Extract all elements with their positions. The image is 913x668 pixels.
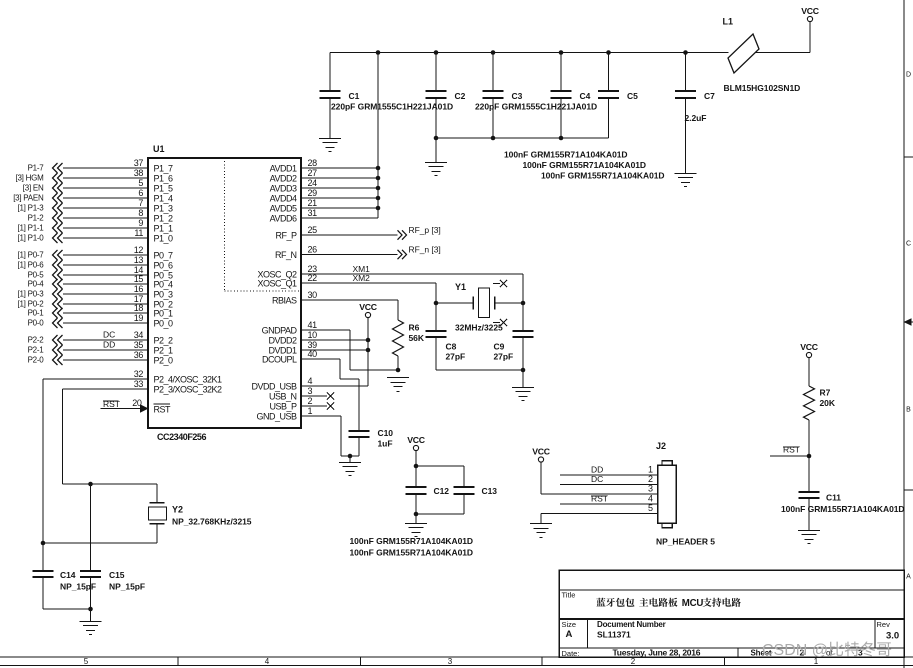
pin name P1_1 [154, 224, 174, 234]
net label RF_p [3] [409, 225, 441, 235]
net label [1] P1-3 [17, 204, 44, 213]
svg-text:P1_3: P1_3 [154, 204, 174, 214]
wire C12-C13 bottom rail [416, 513, 464, 515]
svg-text:GND_USB: GND_USB [256, 412, 297, 422]
svg-text:29: 29 [308, 188, 318, 198]
crystal Y1 [473, 288, 495, 318]
resistor R6 [393, 300, 404, 370]
wire net P0-5 to pin 14 [63, 274, 148, 276]
capacitor C1 [320, 53, 341, 139]
J2 pin number 3 [648, 484, 653, 494]
svg-text:C13: C13 [482, 486, 498, 496]
capacitor C3 [483, 53, 504, 139]
junction C14 top [41, 541, 46, 546]
J2 pin number 5 [648, 503, 653, 513]
wire net P0-4 to pin 15 [63, 283, 148, 285]
C8 reference label [446, 342, 457, 352]
Y1 reference label [455, 282, 466, 292]
svg-text:100nF GRM155R71A104KA01D: 100nF GRM155R71A104KA01D [504, 150, 628, 160]
wire net P0-1 to pin 18 [63, 312, 148, 314]
net label [1] P0-7 [17, 251, 44, 260]
off-page connector P1-2 [53, 213, 63, 223]
frame zone number 3 [448, 657, 453, 666]
C12 reference label [434, 486, 450, 496]
pin name DVDD_USB [251, 382, 297, 392]
frame zone tick D/C [904, 156, 913, 158]
C14 value NP_15pF [60, 582, 96, 592]
svg-text:32MHz/3225: 32MHz/3225 [455, 323, 503, 333]
svg-text:A: A [906, 574, 911, 581]
wire USB_N stub [301, 395, 327, 397]
svg-text:5: 5 [138, 178, 143, 188]
title block divider Rev cell [874, 619, 876, 648]
off-page connector P2-2 [53, 335, 63, 345]
wire net P1-2 to pin 8 [63, 217, 148, 219]
title block divider Size cell [587, 619, 589, 648]
svg-text:38: 38 [134, 168, 144, 178]
C5 reference label [627, 91, 638, 101]
svg-text:2.2uF: 2.2uF [685, 113, 707, 123]
pin name AVDD4 [270, 194, 297, 204]
svg-text:NP_32.768KHz/3215: NP_32.768KHz/3215 [172, 517, 252, 527]
frame bottom outer line [0, 665, 913, 667]
wire net [3] PAEN to pin 6 [63, 197, 148, 199]
pin name GND_USB [256, 412, 297, 422]
wire AVDD pin stub y=198 [301, 197, 378, 199]
title block label Rev [877, 620, 891, 629]
svg-text:AVDD6: AVDD6 [270, 214, 297, 224]
pin name P2_0 [154, 356, 174, 366]
Y1 NC pin stub bottom [493, 322, 500, 324]
pin number 36 [134, 350, 144, 360]
net label DC (J2) [591, 474, 603, 484]
wire top rail left segment [330, 52, 729, 54]
svg-text:C4: C4 [580, 91, 591, 101]
title block label Document Number [597, 620, 666, 629]
C11 value 100nF [781, 504, 905, 514]
wire net P1-7 to pin 37 [63, 167, 148, 169]
pin name P0_7 [154, 251, 174, 261]
ground (R7/C11) [798, 531, 820, 544]
pin number 17 [134, 294, 144, 304]
junction rail/C3 [491, 50, 496, 55]
svg-text:RBIAS: RBIAS [272, 296, 297, 306]
pin number 39 [308, 340, 318, 350]
C8 value 27pF [446, 352, 466, 362]
net label RST (J2, overbar) [591, 494, 608, 504]
net label [1] P0-2 [17, 300, 44, 309]
off-page connector [3] EN [53, 183, 63, 193]
off-page connector P1-7 [53, 163, 63, 173]
wire net [1] P1-0 to pin 11 [63, 237, 148, 239]
off-page connector P0-5 [53, 270, 63, 280]
off-page connector [3] HGM [53, 173, 63, 183]
svg-text:27: 27 [308, 168, 318, 178]
svg-text:100nF GRM155R71A104KA01D: 100nF GRM155R71A104KA01D [781, 504, 905, 514]
svg-text:RST: RST [783, 445, 800, 455]
svg-text:USB_N: USB_N [269, 392, 297, 402]
pin number 30 [308, 290, 318, 300]
junction AVDD bus y=178 [376, 176, 381, 181]
frame bottom inner line [0, 656, 913, 658]
junction rail/C2 [434, 50, 439, 55]
pin name DVDD2 [268, 336, 297, 346]
net label DC [103, 329, 115, 339]
svg-text:RST: RST [591, 494, 608, 504]
pin number 12 [134, 245, 144, 255]
VCC symbol (R7) [800, 342, 818, 357]
capacitor C10 [349, 431, 370, 456]
title block label Sheet [751, 649, 772, 658]
title block divider row1 [559, 589, 904, 591]
wire RF_N [301, 254, 398, 256]
svg-text:C11: C11 [826, 493, 841, 503]
sheet size A [566, 629, 573, 640]
svg-text:USB_P: USB_P [269, 402, 297, 412]
pin name XOSC_Q2 [257, 270, 297, 280]
wire P2_3/XOSC_32K2 pin 33 [62, 388, 148, 390]
title block label Size [562, 620, 577, 629]
svg-text:[3] HGM: [3] HGM [15, 174, 44, 183]
frame bottom zone divider x=360.5 [360, 657, 362, 666]
pin name AVDD3 [270, 184, 297, 194]
svg-text:18: 18 [134, 303, 144, 313]
svg-text:34: 34 [134, 330, 144, 340]
svg-text:P0_3: P0_3 [154, 290, 174, 300]
capacitor C15 [80, 484, 101, 609]
svg-text:35: 35 [134, 340, 144, 350]
pin number 34 [134, 330, 144, 340]
VCC symbol (top right) [801, 6, 819, 21]
pin name P0_6 [154, 261, 174, 271]
net label [1] P0-3 [17, 290, 44, 299]
capacitor C2 [426, 53, 447, 139]
wire DVDD1 [301, 349, 368, 351]
svg-text:24: 24 [308, 178, 318, 188]
svg-text:P2-0: P2-0 [28, 356, 45, 365]
svg-text:DD: DD [591, 465, 603, 475]
svg-text:P1_2: P1_2 [154, 214, 174, 224]
C10 reference label [378, 428, 394, 438]
C11 reference label [826, 493, 841, 503]
net label DD (J2) [591, 465, 603, 475]
L1 value BLM15HG102SN1D [724, 83, 801, 93]
pin name P0_3 [154, 290, 174, 300]
svg-text:P1_0: P1_0 [154, 234, 174, 244]
pin name RF_P [275, 231, 297, 241]
svg-text:4: 4 [265, 657, 270, 666]
off-page connector P0-1 [53, 308, 63, 318]
pin number 5 [138, 178, 143, 188]
off-sheet arrow marker [904, 318, 912, 325]
wire XM2 vertical [435, 283, 437, 303]
wire GND_USB [301, 416, 359, 456]
pin name XOSC_Q1 [257, 279, 297, 289]
svg-text:L1: L1 [723, 17, 733, 27]
svg-text:8: 8 [138, 208, 143, 218]
C2 value 100nF line1 [504, 150, 628, 160]
title block outer border [559, 570, 904, 657]
svg-text:R7: R7 [820, 388, 831, 398]
C13 reference label [482, 486, 498, 496]
VCC symbol (DVDD) [359, 302, 377, 317]
svg-text:Document Number: Document Number [597, 620, 666, 629]
svg-text:C2: C2 [455, 91, 466, 101]
svg-text:DVDD_USB: DVDD_USB [251, 382, 297, 392]
svg-text:30: 30 [308, 290, 318, 300]
wire AVDD pin stub y=208 [301, 207, 378, 209]
pin name DVDD1 [268, 346, 297, 356]
svg-text:SL11371: SL11371 [597, 630, 631, 640]
svg-text:P0_1: P0_1 [154, 309, 174, 319]
svg-text:5: 5 [84, 657, 89, 666]
svg-text:CC2340F256: CC2340F256 [157, 432, 206, 442]
frame zone letter A [906, 574, 911, 581]
svg-text:Y2: Y2 [172, 505, 183, 515]
svg-text:25: 25 [308, 225, 318, 235]
off-page connector RF_p [398, 230, 407, 239]
off-page connector P2-0 [53, 355, 63, 365]
watermark CSDN [762, 642, 891, 659]
pin number 33 [134, 379, 144, 389]
R7 reference label [820, 388, 831, 398]
svg-text:RF_p [3]: RF_p [3] [409, 225, 441, 235]
off-page connector [1] P0-3 [53, 289, 63, 299]
pin name AVDD6 [270, 214, 297, 224]
R6 reference label [409, 323, 420, 333]
Y2 value NP_32.768KHz/3215 [172, 517, 252, 527]
net label [3] EN [23, 184, 44, 193]
capacitor C9 [513, 303, 534, 370]
svg-text:31: 31 [308, 208, 318, 218]
svg-text:4: 4 [308, 376, 313, 386]
pin number 32 [134, 369, 144, 379]
svg-text:37: 37 [134, 158, 144, 168]
wire net [1] P0-2 to pin 17 [63, 303, 148, 305]
svg-text:B: B [906, 407, 911, 414]
J2 part NP_HEADER 5 [656, 537, 715, 547]
svg-text:C1: C1 [349, 91, 360, 101]
sheet total 3 [858, 648, 863, 658]
svg-text:100nF GRM155R71A104KA01D: 100nF GRM155R71A104KA01D [350, 536, 474, 546]
net label P2-0 [28, 356, 45, 365]
pin name P2_3/XOSC_32K2 [154, 385, 223, 395]
pin name AVDD2 [270, 174, 297, 184]
wire Y1 ground stem [522, 370, 524, 387]
wire GNDPAD rail [350, 369, 398, 371]
svg-text:Size: Size [562, 620, 577, 629]
C4 reference label [580, 91, 591, 101]
Y1 NC pin stub top [493, 283, 500, 285]
net label [1] P0-6 [17, 261, 44, 270]
sheet frame right border [903, 0, 905, 668]
C10 value 1uF [378, 439, 393, 449]
wire DVDD_USB [301, 385, 368, 387]
pin number 11 [134, 228, 143, 238]
svg-text:VCC: VCC [801, 6, 819, 16]
svg-text:[3] PAEN: [3] PAEN [13, 194, 44, 203]
no-connect X (Y1 top) [500, 280, 507, 287]
svg-text:C7: C7 [704, 91, 715, 101]
svg-text:28: 28 [308, 158, 318, 168]
wire USB_P stub [301, 405, 327, 407]
J2 pin number 4 [648, 494, 653, 504]
svg-text:56K: 56K [409, 333, 425, 343]
wire J2 pin1 DD [560, 474, 658, 476]
wire AVDD bus vertical [377, 53, 379, 219]
svg-text:P1_4: P1_4 [154, 194, 174, 204]
R6 value 56K [409, 333, 425, 343]
junction AVDD bus y=208 [376, 206, 381, 211]
wire Y2 ground stem [90, 609, 92, 621]
revision 3.0 [886, 631, 899, 642]
title block divider Date cell [737, 648, 739, 657]
wire RBIAS [301, 299, 398, 301]
connector J2 body [658, 461, 677, 528]
svg-text:100nF GRM155R71A104KA01D: 100nF GRM155R71A104KA01D [523, 160, 647, 170]
wire C14-C15 bottom rail [43, 608, 91, 610]
svg-text:1: 1 [308, 406, 313, 416]
ground (J2) [530, 524, 552, 538]
C12 value 100nF [350, 536, 474, 546]
svg-text:20K: 20K [820, 398, 836, 408]
junction rail/AVDD [376, 50, 381, 55]
svg-text:[3] EN: [3] EN [23, 184, 44, 193]
net label P1-2 [28, 214, 45, 223]
inductor L1 ferrite bead [728, 34, 759, 73]
junction C15 top [88, 482, 93, 487]
C13 value 100nF [350, 548, 474, 558]
net label P0-5 [28, 271, 45, 280]
svg-text:C14: C14 [60, 570, 76, 580]
wire net [1] P0-3 to pin 16 [63, 293, 148, 295]
svg-text:100nF GRM155R71A104KA01D: 100nF GRM155R71A104KA01D [350, 548, 474, 558]
U1 part number CC2340F256 [157, 432, 206, 442]
net label XM2 [353, 273, 371, 283]
pin name P0_1 [154, 309, 174, 319]
wire net P2-2 to pin 34 [63, 339, 148, 341]
pin name P1_6 [154, 174, 174, 184]
svg-text:[1] P0-3: [1] P0-3 [17, 290, 44, 299]
pin name P2_4/XOSC_32K1 [154, 375, 223, 385]
svg-text:DC: DC [591, 474, 603, 484]
junction AVDD bus y=198 [376, 196, 381, 201]
wire C10 ground stem [349, 456, 351, 462]
svg-text:3.0: 3.0 [886, 631, 899, 642]
svg-text:220pF GRM1555C1H221JA01D: 220pF GRM1555C1H221JA01D [331, 102, 453, 112]
wire net XM2 [301, 282, 436, 284]
pin name P1_4 [154, 194, 174, 204]
frame bottom zone divider x=542 [541, 657, 543, 666]
document number SL11371 [597, 630, 631, 640]
wire net XM1 [301, 273, 523, 275]
wire AVDD pin stub y=168 [301, 167, 378, 169]
op IC U1 CC2340F256 body [148, 158, 301, 428]
C4 value 100nF line2 [523, 160, 647, 170]
junction R6 bottom [396, 368, 401, 373]
svg-text:2: 2 [648, 474, 653, 484]
svg-text:NP_HEADER 5: NP_HEADER 5 [656, 537, 715, 547]
net label [1] P1-0 [17, 234, 44, 243]
junction RST/R7 [807, 454, 812, 459]
off-page connector [1] P1-3 [53, 203, 63, 213]
svg-text:P0_0: P0_0 [154, 319, 174, 329]
svg-text:AVDD2: AVDD2 [270, 174, 297, 184]
junction DVDD1 [366, 348, 371, 353]
off-page connector RF_n [398, 250, 407, 259]
svg-text:Y1: Y1 [455, 282, 466, 292]
svg-text:33: 33 [134, 379, 144, 389]
pin number 15 [134, 274, 144, 284]
frame zone tick C/B [904, 321, 913, 323]
junction rail/C7 [683, 50, 688, 55]
net label P2-1 [28, 346, 45, 355]
svg-text:XOSC_Q1: XOSC_Q1 [257, 279, 297, 289]
pin number 8 [138, 208, 143, 218]
ground (C7) [675, 174, 697, 187]
svg-text:P0-4: P0-4 [28, 280, 45, 289]
svg-text:3: 3 [648, 484, 653, 494]
wire net P2-0 to pin 36 [63, 359, 148, 361]
svg-text:2: 2 [631, 657, 636, 666]
svg-text:C9: C9 [494, 342, 505, 352]
sheet of [826, 649, 833, 658]
pin number 21 [308, 198, 318, 208]
Y1 value 32MHz/3225 [455, 323, 503, 333]
svg-text:A: A [566, 629, 573, 640]
svg-text:13: 13 [134, 255, 144, 265]
svg-text:C3: C3 [512, 91, 523, 101]
RST input arrow [140, 404, 149, 413]
pin number 26 [308, 244, 318, 254]
svg-text:DCOUPL: DCOUPL [262, 355, 297, 365]
pin number 7 [138, 198, 143, 208]
frame zone number 1 [814, 657, 819, 666]
pin number 25 [308, 225, 318, 235]
wire top rail right segment [756, 52, 811, 54]
title block label Title [562, 591, 576, 600]
J2 reference label [656, 441, 666, 451]
ground (Y2/C14/C15) [80, 622, 102, 635]
net label P0-1 [28, 309, 45, 318]
off-page connector P0-0 [53, 318, 63, 328]
node XM2/C8 [434, 301, 439, 306]
title block label Date [562, 649, 580, 658]
svg-text:19: 19 [134, 313, 144, 323]
svg-text:P2_3/XOSC_32K2: P2_3/XOSC_32K2 [154, 385, 223, 395]
svg-text:VCC: VCC [359, 302, 377, 312]
junction Y1 ground [521, 368, 526, 373]
svg-text:9: 9 [138, 218, 143, 228]
svg-text:5: 5 [648, 503, 653, 513]
svg-text:MCU: MCU [682, 598, 704, 609]
svg-text:21: 21 [308, 198, 318, 208]
pin name AVDD1 [270, 164, 297, 174]
svg-text:AVDD3: AVDD3 [270, 184, 297, 194]
wire XOSC_32K2 vertical [62, 389, 157, 484]
net label RST (right, overbar) [783, 445, 800, 455]
wire DCOUPL [301, 359, 359, 431]
net label P0-4 [28, 280, 45, 289]
svg-text:P0-5: P0-5 [28, 271, 45, 280]
junction C15 ground [88, 607, 93, 612]
svg-text:U1: U1 [153, 144, 164, 154]
svg-text:VCC: VCC [532, 447, 550, 457]
wire P2_4/XOSC_32K1 pin 32 [43, 378, 148, 380]
pin name RST (overbar) [154, 404, 172, 415]
svg-text:Tuesday, June 28, 2016: Tuesday, June 28, 2016 [613, 648, 701, 658]
C15 value NP_15pF [109, 582, 145, 592]
